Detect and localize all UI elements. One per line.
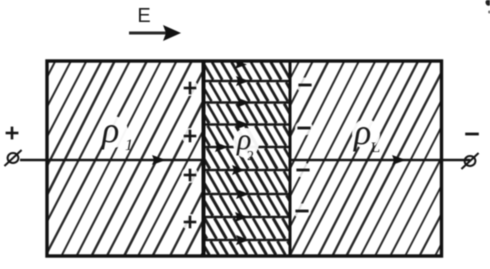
plus terminal sign (left) (6, 132, 19, 135)
E field arrow (129, 25, 181, 41)
region rhoL hatching (right slab) (182, 58, 490, 259)
wire right segment (290, 159, 470, 162)
current arrow on left wire (152, 155, 166, 165)
svg-text:E: E (137, 5, 150, 27)
svg-text:2: 2 (247, 149, 254, 164)
arrowheads on separators (215, 60, 250, 245)
interface surface charges: plus signs on rho1/rho2 boundary (182, 80, 199, 230)
region rho2 hatching (middle slab) (182, 62, 300, 255)
wire left segment (20, 159, 204, 162)
scan speck top-right corner (486, 0, 490, 6)
region rho1 hatching (left slab) (0, 58, 414, 259)
label halo rho2 (233, 128, 259, 158)
svg-text:L: L (371, 140, 380, 156)
current arrow on right wire (392, 155, 406, 165)
phi terminal (left, potential symbol) (8, 153, 19, 163)
right interface (divider rho2/rhoL) (289, 61, 292, 256)
label halo rho1 (98, 116, 128, 148)
interface surface charges: minus signs on rho2/rhoL boundary (293, 78, 314, 219)
minus terminal sign (right) (465, 133, 479, 136)
svg-text:ρ: ρ (101, 110, 119, 150)
outer boundary of conductor (47, 61, 442, 256)
strip separator lines with current arrows (204, 81, 291, 240)
svg-text:1: 1 (125, 137, 133, 154)
phi terminal (right, potential symbol) (465, 156, 476, 166)
svg-text:ρ: ρ (353, 112, 371, 152)
left interface (divider rho1/rho2) (202, 61, 206, 256)
label halo rhoL (352, 119, 380, 149)
